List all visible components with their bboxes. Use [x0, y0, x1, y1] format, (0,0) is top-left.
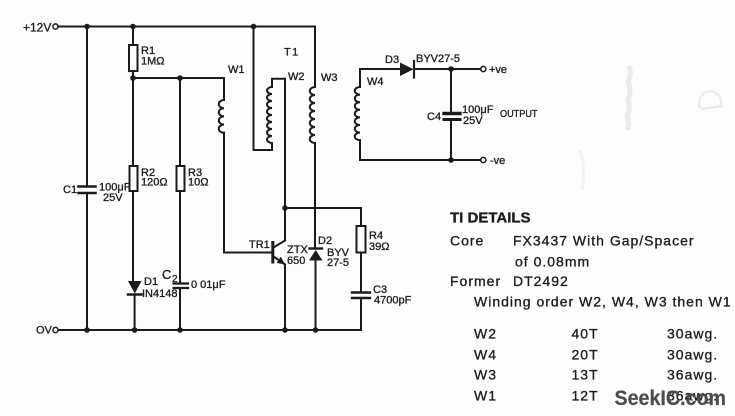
winding W1: [133, 64, 245, 133]
node: C1 top junction: [84, 24, 90, 30]
wire: 0V bottom rail: [58, 329, 361, 331]
wire: R4 to C3: [360, 253, 362, 293]
svg-text:W4: W4: [474, 347, 497, 363]
svg-text:120Ω: 120Ω: [141, 177, 168, 189]
diode D3 BYV27-5: [385, 53, 460, 78]
capacitor C3: [352, 284, 412, 307]
svg-text:D1: D1: [144, 276, 158, 288]
svg-text:W2: W2: [474, 326, 497, 342]
node: C2 bottom: [177, 327, 183, 333]
svg-text:Winding order W2, W4, W3 then: Winding order W2, W4, W3 then W1: [474, 294, 732, 310]
svg-text:D3: D3: [385, 54, 399, 66]
winding W4: [355, 69, 384, 160]
wire: D3 to +ve terminal: [414, 68, 480, 70]
svg-text:DT2492: DT2492: [513, 273, 569, 289]
node: R1 top junction: [130, 24, 136, 30]
diode D2 BYV27-5: [309, 235, 350, 269]
resistor R1: [129, 27, 165, 79]
wire: W4 bottom to -ve terminal: [360, 159, 480, 161]
node: C4 top: [448, 66, 454, 72]
svg-text:27-5: 27-5: [327, 257, 349, 269]
wire: D1 to 0V rail: [134, 295, 136, 331]
wire: R3 to C2: [179, 191, 181, 283]
svg-text:SeekIC.com: SeekIC.com: [615, 387, 727, 410]
svg-text:650: 650: [287, 255, 305, 267]
svg-text:13T: 13T: [572, 367, 599, 383]
wire: W2 to TR1 collector: [284, 79, 286, 241]
scan ghost smudges (decorative): [580, 66, 723, 190]
wire: +12V top rail: [58, 26, 315, 28]
node: collector / snubber junction: [282, 205, 288, 211]
svg-text:of 0.08mm: of 0.08mm: [515, 254, 590, 270]
node: D2 bottom: [313, 327, 319, 333]
svg-text:W3: W3: [321, 72, 338, 84]
node: R1/R2 junction: [130, 75, 136, 81]
wire: collector node to R4: [285, 208, 361, 226]
svg-text:W1: W1: [474, 388, 497, 404]
svg-text:Former: Former: [450, 273, 501, 289]
svg-text:12T: 12T: [572, 388, 599, 404]
diode D1 IN4148: [128, 276, 177, 300]
node: C1 bottom: [84, 327, 90, 333]
svg-text:30awg.: 30awg.: [667, 347, 718, 363]
svg-text:OV: OV: [36, 325, 53, 337]
svg-text:-ve: -ve: [490, 155, 505, 167]
capacitor C4: [427, 69, 494, 160]
svg-text:+ve: +ve: [489, 64, 507, 76]
resistor R2: [130, 78, 168, 191]
svg-text:C4: C4: [427, 111, 441, 123]
wire: W1 to TR1 base: [224, 133, 272, 253]
wire: W3 to D2: [314, 143, 316, 248]
svg-text:Core: Core: [450, 233, 484, 249]
svg-text:39Ω: 39Ω: [369, 241, 389, 253]
+12V supply terminal: [23, 21, 58, 35]
node: emitter bottom: [282, 327, 288, 333]
wire: C1 branch upper: [86, 27, 88, 186]
svg-text:40T: 40T: [572, 326, 599, 342]
svg-text:OUTPUT: OUTPUT: [500, 108, 538, 120]
wire: TR1 emitter to 0V rail: [284, 265, 286, 331]
0V terminal: [36, 325, 58, 337]
node: D1 bottom: [132, 327, 138, 333]
resistor R3: [177, 78, 209, 191]
svg-text:1MΩ: 1MΩ: [141, 56, 165, 68]
node: R3 top junction: [177, 75, 183, 81]
resistor R4: [357, 226, 390, 253]
svg-text:T1: T1: [284, 47, 300, 59]
svg-text:C: C: [162, 267, 171, 282]
wire: C2 to 0V rail: [179, 288, 181, 330]
svg-text:25V: 25V: [463, 115, 483, 127]
capacitor C1: [63, 182, 131, 205]
svg-text:25V: 25V: [103, 192, 123, 204]
winding W2: [254, 27, 305, 151]
node: C4 bottom: [448, 157, 454, 163]
wire: bias node row: [133, 77, 224, 79]
wire: W4 to D3: [360, 68, 400, 70]
wire: C3 to 0V rail: [360, 298, 362, 330]
svg-text:W1: W1: [228, 64, 245, 76]
svg-text:FX3437 With Gap/Spacer: FX3437 With Gap/Spacer: [513, 233, 695, 249]
svg-text:0 01μF: 0 01μF: [191, 279, 226, 291]
transistor TR1 ZTX650: [249, 239, 308, 267]
svg-text:30awg.: 30awg.: [667, 326, 718, 342]
svg-text:10Ω: 10Ω: [188, 177, 208, 189]
+ve output terminal: [481, 64, 507, 76]
svg-text:C1: C1: [63, 184, 77, 196]
wire: R2 to D1: [132, 191, 134, 281]
svg-text:2: 2: [172, 274, 178, 285]
svg-text:D2: D2: [318, 235, 332, 247]
wire: C1 branch lower: [86, 194, 88, 331]
svg-text:W4: W4: [367, 76, 384, 88]
-ve output terminal: [481, 155, 506, 167]
svg-text:BYV27-5: BYV27-5: [416, 53, 460, 65]
winding W3: [310, 27, 338, 144]
svg-text:36awg.: 36awg.: [667, 367, 718, 383]
capacitor C2: [162, 267, 226, 291]
wire: D2 to 0V rail: [315, 261, 317, 331]
node: W2 top junction: [251, 24, 257, 30]
svg-text:+12V: +12V: [23, 21, 51, 35]
svg-text:4700pF: 4700pF: [374, 295, 412, 307]
svg-text:W3: W3: [474, 367, 497, 383]
svg-text:TR1: TR1: [249, 239, 270, 251]
svg-text:TI DETAILS: TI DETAILS: [450, 210, 531, 227]
svg-text:20T: 20T: [572, 347, 599, 363]
svg-text:IN4148: IN4148: [142, 288, 177, 300]
svg-text:W2: W2: [288, 71, 305, 83]
